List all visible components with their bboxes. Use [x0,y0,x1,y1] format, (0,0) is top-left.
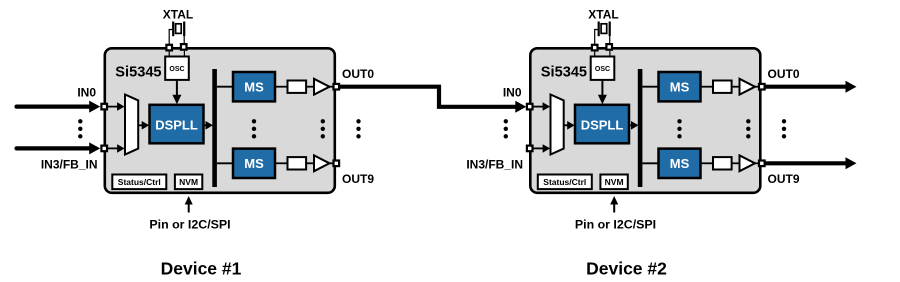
wire buffer to pin OUT9 (U2) [755,162,759,164]
wire bus to multisynth MS (OUT0 row, U1) [217,86,233,88]
svg-text:OSC: OSC [595,66,610,73]
pin OUT9 (U2) [759,161,765,167]
wire OSC to DSPLL (U1) [176,80,178,96]
multisynth MS (OUT9 row, U2) [659,149,701,178]
output buffer (OUT0 row, U1) [314,79,330,95]
output divider (OUT9 row, U2) [713,157,732,169]
wire mux to DSPLL (U1) [138,124,143,126]
pin IN0 (U2) [527,104,533,110]
wire MS to output divider (OUT0 row, U2) [701,86,714,88]
svg-text:MS: MS [670,79,690,94]
svg-text:Status/Ctrl: Status/Ctrl [543,177,586,187]
pin IN3/FB_IN (U1) [101,146,107,152]
wire control input arrow (U1) [188,204,190,213]
wire crystal X2 right lead to pin XB [609,36,611,45]
wire mux to DSPLL (U2) [564,124,569,126]
wire control input arrow (U2) [613,204,615,213]
wire pin XA to OSC (U2) [594,51,596,57]
wire MS to output divider (OUT9 row, U1) [275,162,288,164]
output buffer (OUT0 row, U2) [740,79,756,95]
pin XB (U1) [181,44,187,50]
svg-text:Device #2: Device #2 [586,259,667,279]
output divider (OUT0 row, U2) [713,81,732,93]
wire buffer to pin OUT0 (U1) [330,86,334,88]
pin IN3/FB_IN (U2) [527,146,533,152]
svg-text:Status/Ctrl: Status/Ctrl [118,177,161,187]
pin OUT0 (U1) [334,84,340,90]
ellipsis dots output column (U1) [356,119,360,123]
ellipsis dots output column (U2) [782,119,786,123]
svg-text:NVM: NVM [179,177,198,187]
ellipsis dots MS column (U1) [252,119,256,123]
wire crystal X1 left lead to pin XA [169,30,173,46]
pin IN0 (U1) [101,104,107,110]
ellipsis dots input column (U1) [78,119,82,123]
block NVM (U1) [175,175,202,190]
svg-text:MS: MS [670,156,690,171]
wire DSPLL to distribution bus (U2) [629,124,632,126]
svg-text:Device #1: Device #1 [161,259,242,279]
svg-text:Si5345: Si5345 [115,65,161,81]
svg-text:MS: MS [244,156,264,171]
wire divider to buffer (OUT9 row, U1) [306,162,314,164]
clock distribution bus (U1) [212,69,217,187]
pin XB (U2) [606,44,612,50]
ellipsis dots input column (U2) [504,119,508,123]
input mux (U2) [551,95,564,155]
svg-text:MS: MS [244,79,264,94]
svg-text:NVM: NVM [605,177,624,187]
wire pin IN3/FB_IN to mux (U1) [107,147,118,149]
input mux (U1) [125,95,138,155]
wire pin IN3/FB_IN to mux (U2) [532,147,543,149]
block Status/Ctrl (U2) [538,175,592,190]
svg-text:IN0: IN0 [77,86,96,100]
crystal X1 [173,22,184,37]
wire crystal X1 right lead to pin XB [183,36,185,45]
ellipsis dots MS column (U2) [677,119,681,123]
svg-text:Pin or I2C/SPI: Pin or I2C/SPI [575,217,656,231]
wire daisy-chain OUT0 of U1 to IN0 of U2 [339,87,517,107]
pin OUT9 (U1) [334,161,340,167]
wire bus to multisynth MS (OUT9 row, U2) [642,162,658,164]
wire bus to multisynth MS (OUT0 row, U2) [642,86,658,88]
output buffer (OUT9 row, U2) [740,155,756,171]
wire bus to multisynth MS (OUT9 row, U1) [217,162,233,164]
wire external clock input to IN3/FB_IN (U1) [17,146,91,150]
oscillator OSC (U2) [591,57,615,80]
multisynth MS (OUT0 row, U1) [233,72,275,101]
wire pin IN0 to mux (U2) [532,106,543,108]
svg-text:DSPLL: DSPLL [581,117,624,132]
svg-text:Pin or I2C/SPI: Pin or I2C/SPI [149,217,230,231]
pin XA (U2) [592,45,598,51]
wire pin XB to OSC (U1) [183,51,185,57]
ellipsis dots buffer column (U2) [746,119,750,123]
svg-text:DSPLL: DSPLL [155,117,198,132]
svg-text:IN3/FB_IN: IN3/FB_IN [466,157,523,171]
ellipsis dots buffer column (U1) [321,119,325,123]
device U1 Si5345 outline (Device #1) [105,48,335,193]
svg-text:XTAL: XTAL [163,7,193,21]
svg-text:Si5345: Si5345 [541,65,587,81]
wire OUT0 output arrow (U2) [764,85,847,89]
clock distribution bus (U2) [638,69,643,187]
wire MS to output divider (OUT9 row, U2) [701,162,714,164]
block NVM (U2) [600,175,627,190]
output divider (OUT9 row, U1) [288,157,307,169]
wire external clock input to IN0 (U1) [17,104,91,108]
wire divider to buffer (OUT0 row, U1) [306,86,314,88]
output divider (OUT0 row, U1) [288,81,307,93]
wire buffer to pin OUT9 (U1) [330,162,334,164]
oscillator OSC (U1) [165,57,189,80]
crystal X2 [599,22,610,37]
wire pin XA to OSC (U1) [168,51,170,57]
wire pin XB to OSC (U2) [609,51,611,57]
wire MS to output divider (OUT0 row, U1) [275,86,288,88]
pin OUT0 (U2) [759,84,765,90]
svg-text:OUT0: OUT0 [342,67,374,81]
multisynth MS (OUT9 row, U1) [233,149,275,178]
wire crystal X2 left lead to pin XA [595,30,599,46]
wire DSPLL to distribution bus (U1) [204,124,207,126]
output buffer (OUT9 row, U1) [314,155,330,171]
wire OSC to DSPLL (U2) [601,80,603,96]
pll DSPLL (U2) [575,105,629,144]
svg-text:XTAL: XTAL [588,7,618,21]
svg-text:OUT9: OUT9 [768,172,800,186]
svg-text:OSC: OSC [169,66,184,73]
svg-text:OUT9: OUT9 [342,172,374,186]
device U2 Si5345 outline (Device #2) [530,48,760,193]
wire OUT9 output arrow (U2) [764,161,847,165]
svg-text:IN3/FB_IN: IN3/FB_IN [41,157,98,171]
wire buffer to pin OUT0 (U2) [755,86,759,88]
wire divider to buffer (OUT0 row, U2) [732,86,740,88]
multisynth MS (OUT0 row, U2) [659,72,701,101]
pin XA (U1) [166,45,172,51]
svg-text:IN0: IN0 [503,86,522,100]
wire divider to buffer (OUT9 row, U2) [732,162,740,164]
wire pin IN0 to mux (U1) [107,106,118,108]
pll DSPLL (U1) [150,105,204,144]
block Status/Ctrl (U1) [112,175,166,190]
svg-text:OUT0: OUT0 [768,67,800,81]
